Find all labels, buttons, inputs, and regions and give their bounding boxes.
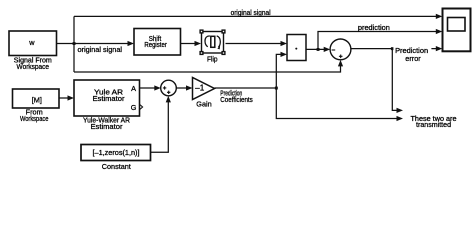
- svg-text:original signal: original signal: [231, 8, 271, 17]
- svg-text:w: w: [28, 38, 35, 47]
- svg-text:–1: –1: [195, 83, 205, 92]
- svg-text:Constant: Constant: [102, 162, 131, 171]
- svg-text:Workspace: Workspace: [20, 114, 49, 123]
- svg-text:[M]: [M]: [32, 96, 42, 105]
- svg-text:original signal: original signal: [78, 45, 123, 54]
- svg-text:G: G: [131, 103, 137, 112]
- svg-text:Flip: Flip: [207, 55, 218, 64]
- svg-text:Estimator: Estimator: [93, 94, 126, 103]
- svg-text:Register: Register: [144, 40, 167, 49]
- svg-text:Estimator: Estimator: [91, 122, 124, 131]
- svg-text:Gain: Gain: [196, 99, 211, 108]
- svg-text:Workspace: Workspace: [17, 62, 50, 71]
- svg-text:error: error: [405, 54, 421, 63]
- svg-text:transmitted: transmitted: [416, 120, 451, 129]
- svg-text:[–1,zeros(1,n)]: [–1,zeros(1,n)]: [93, 148, 140, 157]
- svg-text:A: A: [131, 84, 136, 93]
- svg-text:Coefficients: Coefficients: [220, 95, 253, 104]
- svg-text:prediction: prediction: [358, 23, 390, 32]
